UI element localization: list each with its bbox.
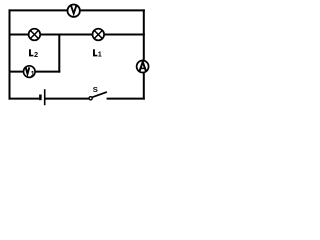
ammeter A: letter A strokes — [140, 62, 146, 71]
lamp L1: cross diagonal 2 — [94, 30, 102, 38]
wire: top side — [10, 9, 144, 11]
wire: right side — [143, 10, 145, 98]
wire: V1 branch vertical from node between L2 and L1 — [58, 35, 60, 72]
svg-text:1: 1 — [31, 69, 35, 78]
battery cell: long positive plate — [44, 89, 46, 105]
wire: left side — [9, 10, 11, 98]
voltmeter V1: circle — [24, 66, 36, 78]
voltmeter V1: letter V — [26, 67, 30, 74]
lamp L2: circle — [29, 29, 41, 41]
label L1: letter L — [93, 49, 97, 56]
wire: switch to bottom right corner — [108, 98, 144, 100]
switch S: contact circle — [89, 97, 92, 100]
battery cell: short negative plate — [39, 95, 42, 101]
label L2: letter L — [29, 49, 33, 56]
wire: middle row through lamps — [10, 34, 144, 36]
lamp L2: cross diagonal 2 — [30, 30, 38, 38]
wire: battery to switch — [46, 98, 89, 100]
svg-text:2: 2 — [34, 50, 38, 59]
voltmeter V (top): letter V — [71, 6, 76, 14]
svg-text:1: 1 — [98, 50, 102, 59]
wire: V1 branch horizontal — [10, 71, 60, 73]
lamp L1: cross diagonal 1 — [94, 30, 102, 38]
switch S: lever arm — [92, 92, 106, 97]
ammeter A: crossbar — [141, 67, 145, 69]
svg-text:S: S — [93, 85, 98, 94]
voltmeter V (top): circle — [68, 5, 80, 17]
ammeter A: circle — [137, 61, 149, 73]
lamp L2: cross diagonal 1 — [30, 30, 38, 38]
lamp L1: circle — [93, 29, 105, 41]
wire: bottom left to battery — [10, 98, 40, 100]
